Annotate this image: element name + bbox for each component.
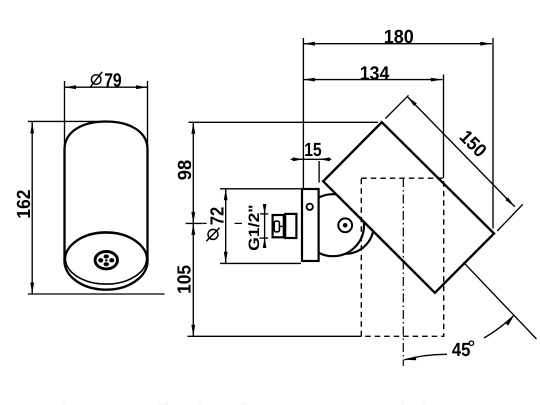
arrows 162 [30, 122, 34, 134]
dim 105 line [192, 223, 194, 336]
arrows G1/2 (outside) [263, 204, 267, 214]
svg-text:45: 45 [452, 340, 471, 361]
right view: nipple flange [285, 214, 296, 238]
dim 134 line [303, 79, 442, 81]
right view: ball housing circle [302, 194, 364, 256]
arrows 15 (outside) [293, 157, 304, 161]
svg-text:G1/2": G1/2" [246, 204, 263, 251]
dim 98 top extension line [189, 121, 379, 123]
arrows 105 [191, 223, 195, 235]
dash-dot vertical center line of dashed position [402, 178, 404, 366]
arrows 150 [407, 97, 417, 107]
svg-text:98: 98 [175, 160, 196, 181]
arrows Ø79 [65, 85, 77, 89]
right view: nipple cap notch [274, 221, 279, 232]
dim 150 line [407, 97, 515, 207]
dim 180 line [303, 43, 491, 45]
dim G1/2 line [264, 204, 266, 248]
arrows 134 [303, 78, 315, 82]
right view: plate screw hole [307, 204, 313, 210]
45 deg arc right part [484, 315, 514, 338]
left view: nozzle ring [95, 252, 117, 269]
dim Ø72 line [225, 189, 227, 263]
left view: face plate outer ellipse [65, 232, 148, 289]
dim 180 right extension line [492, 38, 494, 229]
right view: collar circle (head side of ball joint) [317, 197, 374, 254]
dim 98 line [192, 122, 194, 223]
svg-text:72: 72 [208, 207, 229, 226]
svg-text:15: 15 [304, 140, 322, 161]
right view: pivot dot [343, 223, 348, 228]
dim 150 extension line lower [497, 204, 523, 231]
right view: G1/2 nipple cap [273, 215, 284, 237]
dim Ø72 extension lines [220, 188, 301, 190]
arrows 45 deg arc [404, 357, 416, 361]
svg-text:134: 134 [360, 64, 390, 85]
svg-text:180: 180 [384, 27, 414, 48]
dim 15 line [291, 158, 332, 160]
dim 15 right extension line [318, 161, 320, 183]
45 deg arc left part [404, 354, 447, 360]
left view: face plate inner rim ellipse [65, 233, 146, 284]
svg-text:105: 105 [175, 265, 196, 294]
dim 162 extension lines [28, 120, 98, 122]
dim Ø79 extension lines [64, 81, 66, 147]
dashed rectangle: head in vertical position [361, 178, 443, 336]
dim 105 bottom extension line [188, 335, 362, 337]
arrows Ø72 [224, 189, 228, 201]
left view: nozzle dots [98, 254, 114, 266]
label Ø72 [206, 207, 228, 241]
right view: nipple center line [279, 225, 286, 227]
faint bottom specks [63, 403, 426, 405]
dim 162 line [31, 122, 33, 294]
dim 134 right extension line [443, 75, 445, 179]
svg-text:162: 162 [14, 190, 35, 219]
dash-dot horizontal axis line at connector [203, 222, 207, 224]
dim 98/105 shared tick extension [186, 222, 203, 224]
label Ø79 [90, 70, 122, 91]
arrows 98 [191, 122, 195, 134]
wall face extension line [302, 38, 304, 189]
left view: cylinder body outline [65, 122, 148, 262]
svg-text:79: 79 [104, 70, 122, 91]
right view: wall plate [302, 189, 319, 261]
arrows 180 [303, 42, 315, 46]
right view: pivot ring [338, 218, 352, 232]
dim Ø79 line [65, 86, 148, 88]
right view: head cylinder at 45 deg [323, 122, 494, 293]
dim 150 extension line upper [385, 95, 408, 118]
45 deg axis extension line [464, 262, 537, 339]
dim G1/2 extension lines [260, 213, 268, 215]
